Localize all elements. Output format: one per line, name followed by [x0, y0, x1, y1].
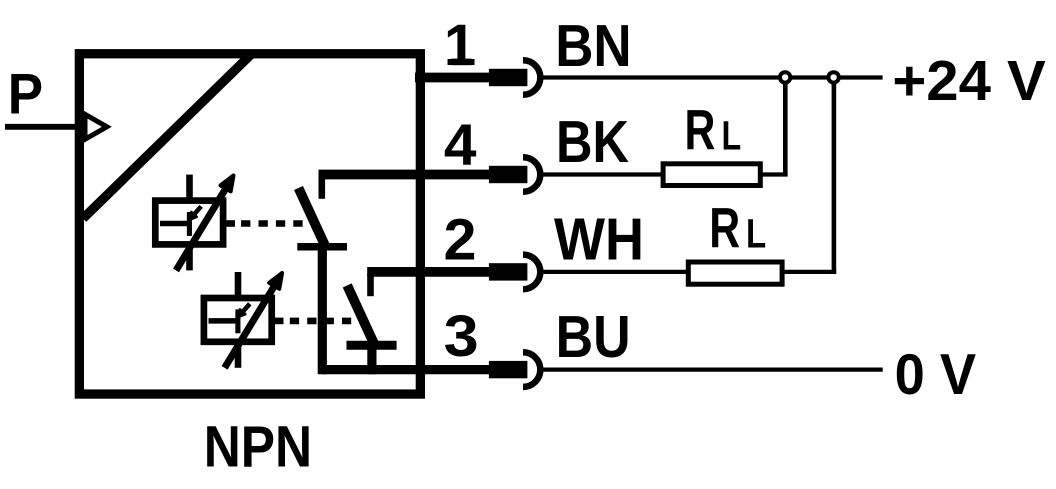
pressure input arrow [85, 114, 107, 139]
pin 4 wire [319, 170, 490, 180]
A1 inner horizontal line [160, 221, 187, 227]
A2 top stub [235, 272, 242, 296]
pin 2 wire [367, 267, 489, 277]
pin 2 connector socket arc [523, 255, 540, 290]
A1 inner contact bar [187, 212, 192, 236]
svg-text:4: 4 [444, 112, 477, 177]
svg-text:2: 2 [444, 207, 477, 272]
node 1 circle [780, 72, 790, 82]
A1 adjustment arrowhead [221, 176, 234, 192]
svg-text:WH: WH [554, 207, 644, 273]
resistor RL2 [688, 262, 782, 284]
pin 2 connector plug [489, 263, 528, 280]
A2 inner horizontal line [209, 318, 236, 324]
vertical wire node 2 [832, 79, 837, 274]
A2 adjustment arrowhead [269, 273, 282, 289]
switch S2 contact bar [347, 341, 397, 350]
pin 3 connector plug [489, 361, 528, 378]
wire WH [541, 270, 688, 274]
A1 inner arrow shaft [194, 206, 201, 214]
svg-text:L: L [746, 211, 766, 257]
svg-text:3: 3 [444, 304, 479, 369]
diagonal separator line [83, 54, 252, 219]
wire BN [541, 75, 883, 79]
pin 3 connector socket arc [523, 352, 540, 387]
setpoint adjuster A2 box [204, 298, 272, 342]
pin 4 connector plug [489, 166, 528, 183]
switch S1 hook stub [318, 176, 325, 199]
A1 top stub [186, 175, 193, 199]
pressure input wire [5, 124, 79, 130]
switch S1 output wire down [318, 247, 327, 374]
pin 1 connector socket arc [523, 60, 540, 95]
svg-text:+24 V: +24 V [892, 49, 1045, 113]
wire BU [541, 368, 883, 372]
pin 4 connector socket arc [523, 157, 540, 192]
wire RL2 to node 2 [782, 270, 836, 274]
switch S1 contact bar [297, 243, 347, 251]
A2 adjustment arrow shaft [225, 284, 276, 368]
sensor body box [79, 54, 420, 394]
svg-text:P: P [8, 62, 43, 126]
svg-text:0 V: 0 V [895, 343, 977, 407]
svg-text:R: R [685, 99, 716, 163]
A2 dashed link stub [275, 318, 284, 325]
A1 inner arrowhead [189, 212, 197, 220]
A1 adjustment arrow shaft [176, 187, 227, 271]
setpoint adjuster A1 box [155, 201, 223, 245]
pin 1 wire [415, 73, 489, 83]
svg-text:BU: BU [556, 304, 631, 370]
wire BK [541, 172, 663, 176]
pin 3 wire / common rail [322, 365, 489, 374]
svg-text:BK: BK [556, 109, 629, 175]
wire RL1 to node 1 [760, 172, 787, 176]
A2 inner arrow shaft [243, 304, 250, 312]
svg-text:BN: BN [555, 13, 632, 79]
A1 bottom stub [186, 247, 193, 271]
A2 inner arrowhead [237, 309, 245, 317]
svg-text:L: L [722, 113, 742, 159]
node 2 circle [828, 72, 838, 82]
A1 dashed link stub [227, 220, 236, 227]
pin 1 connector plug [489, 69, 528, 86]
svg-text:R: R [709, 197, 740, 261]
switch S2 hook stub [367, 273, 374, 296]
A1 dashed link to switch S1 [241, 220, 303, 227]
resistor RL1 [663, 164, 760, 186]
switch S1 lever [299, 188, 326, 246]
vertical wire node 1 [783, 79, 788, 176]
A2 inner contact bar [235, 309, 240, 333]
switch S2 lever [347, 285, 374, 343]
switch S2 output wire down [367, 343, 376, 374]
pin label 1 foot bar [451, 59, 471, 66]
svg-text:1: 1 [444, 13, 476, 78]
A2 dashed link to switch S2 [290, 318, 351, 325]
svg-text:NPN: NPN [204, 415, 312, 480]
A2 bottom stub [235, 344, 242, 368]
